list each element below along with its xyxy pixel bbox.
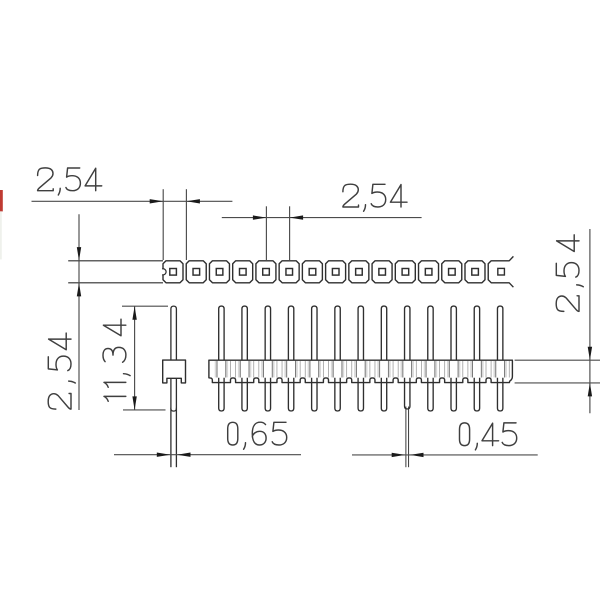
pin 6 lower shaft: [335, 378, 340, 411]
pin 4 square cross-section: [239, 269, 246, 276]
block division at x=372.41: [369, 361, 371, 378]
dimension 0,45: dimension line: [352, 454, 538, 456]
pin 2 square cross-section: [193, 269, 200, 276]
pin 13 press-fit zone shading: [493, 361, 506, 378]
pin 14 square cross-section: [472, 269, 479, 276]
arrowhead: [253, 215, 267, 219]
pin 3 square cross-section: [216, 269, 223, 276]
top view insulator cell 3: [209, 261, 229, 283]
top view: header strip body edge extension lines (left): [68, 260, 163, 262]
pin 9 upper shaft: [405, 306, 410, 360]
pin 10 upper shaft: [428, 306, 433, 360]
pin 10 lower shaft: [428, 378, 433, 411]
pin 2 upper shaft: [242, 306, 247, 360]
pin 4 press-fit zone shading: [284, 361, 297, 378]
arrowhead: [132, 396, 136, 410]
arrowhead: [290, 215, 304, 219]
pin 11 lower shaft: [451, 378, 456, 411]
arrowhead: [150, 199, 164, 203]
top view insulator cell 8: [326, 261, 346, 283]
pin 3 lower shaft: [265, 378, 270, 411]
detached single pin upper shaft: [171, 306, 177, 360]
dimension 11,34: extension lines: [122, 305, 168, 307]
block division at x=233.03: [229, 361, 231, 378]
arrowhead: [77, 247, 81, 261]
red edge mark: [0, 190, 3, 211]
pin 5 lower shaft: [312, 378, 317, 411]
side view insulator strip body: [209, 360, 513, 382]
side view insulator strip outline: [209, 360, 513, 382]
pin 2 lower shaft: [242, 378, 247, 411]
dimension 0,65: dimension line: [114, 454, 301, 456]
arrowhead: [177, 453, 191, 457]
dimension 2,54 top-middle: dimension line: [222, 217, 422, 219]
top view insulator cell 7: [302, 261, 322, 283]
detached pin plastic collar: [163, 360, 186, 383]
pin 5 square cross-section: [263, 269, 270, 276]
pin 8 square cross-section: [332, 269, 339, 276]
dimension 2,54 left: dimension line: [78, 214, 80, 410]
pin 1 lower shaft: [219, 378, 224, 411]
label 0,45: [460, 423, 517, 450]
pin 1 press-fit zone shading: [215, 361, 228, 378]
pin 2 press-fit zone shading: [238, 361, 251, 378]
pin 9 lower shaft (short tip): [405, 378, 410, 409]
top view insulator cell 5: [256, 261, 276, 283]
pin 1 square cross-section: [170, 269, 177, 276]
pin 4 lower shaft: [288, 378, 293, 411]
top view insulator cell 13: [442, 261, 462, 283]
dimension 11,34: dimension line: [134, 306, 136, 410]
arrowhead: [186, 199, 200, 203]
pin 4 upper shaft: [288, 306, 293, 360]
pin 8 upper shaft: [381, 306, 386, 360]
pin 9 square cross-section: [356, 269, 363, 276]
block division at x=302.72: [299, 361, 301, 378]
block division at x=279.49: [276, 361, 278, 378]
pin 5 press-fit zone shading: [308, 361, 321, 378]
top view insulator cell 14: [465, 261, 485, 283]
pin 9 thin 0.45 tail: [405, 407, 407, 468]
pin 12 press-fit zone shading: [470, 361, 483, 378]
pin 3 upper shaft: [265, 306, 270, 360]
right end division: [508, 361, 510, 378]
arrowhead: [77, 283, 81, 297]
pin 1 upper shaft: [219, 306, 224, 360]
block division at x=325.95: [322, 361, 324, 378]
block division at x=465.33: [462, 361, 464, 378]
top view insulator cell 4: [233, 261, 253, 283]
label 0,65: [228, 422, 287, 449]
top view partial cell 15 (break): [488, 256, 513, 287]
pin 12 lower shaft: [474, 378, 479, 411]
top view insulator cell 11: [395, 261, 415, 283]
arrowhead: [588, 347, 592, 361]
label 2,54 left (rotated): [48, 333, 75, 409]
top view insulator cell 6: [279, 261, 299, 283]
pin 13 upper shaft: [497, 306, 502, 360]
label 11,34 (rotated): [103, 319, 130, 401]
pin 8 lower shaft: [381, 378, 386, 411]
pin 10 press-fit zone shading: [424, 361, 437, 378]
top view insulator cell 9: [349, 261, 369, 283]
pin 5 upper shaft: [312, 306, 317, 360]
top view insulator cell 2: [186, 261, 206, 283]
pin 15 square cross-section: [498, 268, 505, 275]
pin 11 upper shaft: [451, 306, 456, 360]
block division at x=349.18: [346, 361, 348, 378]
pin 9 press-fit zone shading: [401, 361, 414, 378]
dimension 2,54 top-left: dimension line: [32, 200, 233, 202]
pin 6 square cross-section: [286, 269, 293, 276]
top view insulator cell 12: [419, 261, 439, 283]
label 2,54 top-middle: [343, 184, 407, 211]
detached pin rounded tip at 11.34 mark: [171, 408, 177, 411]
pin 11 square cross-section: [402, 269, 409, 276]
pin 13 square cross-section: [449, 269, 456, 276]
pin 7 lower shaft: [358, 378, 363, 411]
pin 7 press-fit zone shading: [354, 361, 367, 378]
top view insulator cell 1: [163, 261, 183, 283]
pin 10 square cross-section: [379, 269, 386, 276]
pin 7 square cross-section: [309, 269, 316, 276]
pin 13 lower shaft: [497, 378, 502, 411]
arrowhead: [588, 383, 592, 397]
label 2,54 right (rotated): [556, 235, 583, 312]
polarity notch cell 1: [162, 269, 164, 275]
arrowhead: [392, 453, 406, 457]
pin 7 upper shaft: [358, 306, 363, 360]
block division at x=395.64: [392, 361, 394, 378]
arrowhead: [132, 306, 136, 320]
pin 12 upper shaft: [474, 306, 479, 360]
pin 3 press-fit zone shading: [261, 361, 274, 378]
arrowhead: [410, 453, 424, 457]
pin 6 upper shaft: [335, 306, 340, 360]
block division at x=488.56: [485, 361, 487, 378]
pin 6 press-fit zone shading: [331, 361, 344, 378]
block division at x=256.26: [253, 361, 255, 378]
arrowhead: [157, 453, 171, 457]
dimension 2,54 top-left: extension lines: [162, 189, 164, 260]
pin 8 press-fit zone shading: [377, 361, 390, 378]
dimension 2,54 right: dimension line: [589, 229, 591, 413]
label 2,54 top-left: [38, 168, 102, 195]
detached single pin lower shaft lines: [170, 378, 172, 467]
block division at x=418.87: [415, 361, 417, 378]
block division at x=442.1: [439, 361, 441, 378]
dimension 2,54 top-middle: extension lines: [265, 206, 267, 260]
pin 12 square cross-section: [425, 269, 432, 276]
top view insulator cell 10: [372, 261, 392, 283]
dimension 2,54 right: extension lines: [515, 359, 600, 361]
pin 11 press-fit zone shading: [447, 361, 460, 378]
